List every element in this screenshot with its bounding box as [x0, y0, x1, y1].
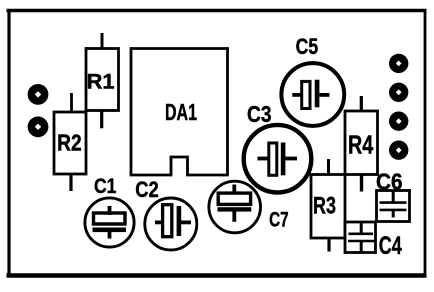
capacitor C3 — [244, 101, 312, 193]
pad hole left 2 — [28, 116, 49, 137]
svg-text:C3: C3 — [247, 101, 272, 127]
svg-text:C1: C1 — [94, 175, 117, 198]
capacitor C4 — [345, 222, 402, 260]
resistor R4 — [345, 96, 378, 192]
resistor R1 — [86, 33, 119, 128]
pad hole right 4 — [389, 141, 408, 160]
capacitor C1 — [85, 175, 134, 247]
capacitor C7 — [209, 181, 289, 233]
pad hole right 3 — [389, 112, 408, 131]
svg-text:DA1: DA1 — [165, 99, 197, 125]
svg-text:C4: C4 — [379, 232, 402, 260]
svg-text:C7: C7 — [269, 208, 289, 232]
svg-text:C2: C2 — [135, 177, 159, 202]
capacitor C6 — [376, 168, 409, 221]
capacitor C2 — [135, 177, 197, 250]
IC DA1 with key notch — [131, 49, 228, 176]
svg-text:C6: C6 — [376, 168, 403, 194]
svg-text:C5: C5 — [296, 34, 319, 59]
capacitor C5 — [281, 34, 344, 126]
svg-text:R4: R4 — [348, 131, 374, 159]
resistor R3 — [311, 159, 345, 252]
svg-text:R2: R2 — [57, 130, 82, 156]
svg-text:R1: R1 — [87, 71, 115, 94]
resistor R2 — [54, 93, 86, 191]
pad hole left 1 — [28, 84, 49, 105]
pad hole right 2 — [389, 83, 408, 102]
svg-text:R3: R3 — [313, 193, 336, 220]
pad hole right 1 — [389, 54, 408, 73]
